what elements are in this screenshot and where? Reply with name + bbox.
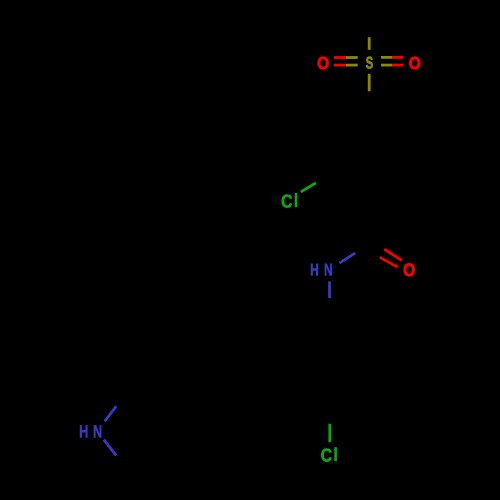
wire N-C(aryl) half-bond (blue) (328, 281, 331, 298)
svg-text:H: H (310, 260, 319, 279)
chlorine Cl (ring 2), l glyph bar (334, 447, 337, 461)
chlorine Cl (ring 1), l glyph bar (295, 193, 298, 207)
svg-text:S: S (366, 54, 374, 73)
svg-text:H: H (79, 421, 88, 441)
wire S-CH3 half-bond (olive) (368, 37, 371, 50)
wire Cl-C half-bond (green, ring 2) (328, 424, 331, 442)
wire right S=O bottom line, O half (392, 64, 404, 67)
wire C=O double bond upper line, O half (384, 249, 401, 260)
wire left S=O bottom line, O half (334, 64, 346, 67)
wire right S=O top line, S half (381, 56, 392, 59)
svg-text:O: O (403, 260, 415, 280)
wire left S=O top line, S half (346, 56, 358, 59)
wire right S=O bottom line, S half (381, 64, 392, 67)
wire left S=O top line, O half (334, 56, 346, 59)
svg-text:O: O (317, 53, 329, 73)
wire Cl-C half-bond (green) (301, 183, 316, 192)
wire C=O double bond lower line, O half (380, 257, 398, 267)
svg-text:N: N (93, 421, 102, 441)
wire N-C(=O) half-bond (blue) (340, 253, 356, 263)
svg-text:C: C (281, 191, 292, 212)
wire left S=O bottom line, S half (346, 64, 358, 67)
svg-text:O: O (409, 53, 421, 73)
svg-text:N: N (324, 260, 333, 279)
wire N-C lower half-bond (blue) (104, 440, 116, 456)
wire right S=O top line, O half (392, 56, 404, 59)
wire S-C(aryl) half-bond (olive) (368, 74, 371, 92)
svg-text:C: C (321, 444, 332, 465)
wire N-C upper half-bond (blue) (105, 406, 117, 421)
